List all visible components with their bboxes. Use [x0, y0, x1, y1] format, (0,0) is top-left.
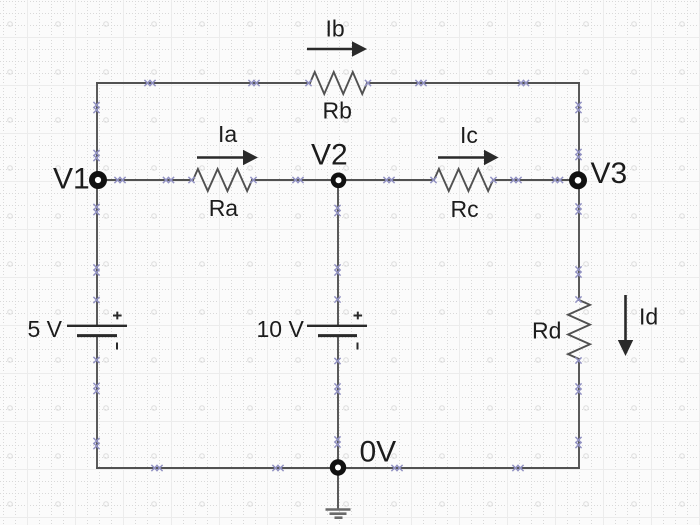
- svg-text:10 V: 10 V: [257, 316, 305, 342]
- wire junction markers middle wire: [114, 177, 563, 183]
- battery V source 5V: [67, 312, 127, 350]
- svg-text:V1: V1: [53, 163, 90, 196]
- svg-text:0V: 0V: [360, 436, 397, 469]
- wire junction markers middle vertical: [334, 205, 340, 448]
- resistor Ra: [193, 169, 252, 191]
- wire ground stem: [337, 468, 339, 509]
- wire middle Ra to V2: [252, 179, 331, 181]
- node V3: [569, 171, 587, 189]
- current arrow Ia: [197, 150, 258, 165]
- wire middle Rc to V3: [493, 179, 570, 181]
- svg-text:5 V: 5 V: [28, 316, 63, 342]
- svg-text:Id: Id: [639, 304, 658, 330]
- resistor Rd: [568, 300, 590, 359]
- node V1: [89, 171, 107, 189]
- svg-text:V2: V2: [311, 139, 348, 172]
- wire middle vertical upper (V2 down to 10V battery): [337, 188, 339, 325]
- battery V source 10V: [307, 312, 367, 350]
- resistor Rc: [434, 169, 493, 191]
- svg-text:Ib: Ib: [326, 16, 345, 42]
- wire junction markers bottom wire: [151, 465, 523, 471]
- wire left vertical middle (V1 down to 5V battery): [96, 188, 98, 325]
- svg-text:Rd: Rd: [532, 318, 561, 344]
- current arrow Ib: [307, 41, 367, 56]
- wire middle V2 to Rc: [346, 179, 434, 181]
- svg-text:Ra: Ra: [209, 195, 239, 221]
- wire top horizontal left (V1 corner to Rb): [97, 82, 310, 84]
- wire junction markers left vertical: [93, 102, 99, 449]
- wire right vertical upper (top corner down to V3): [578, 83, 580, 171]
- ground: [326, 510, 351, 518]
- node V2: [331, 173, 347, 189]
- wire middle V1 to Ra: [106, 179, 193, 181]
- current arrow Ic: [438, 150, 499, 165]
- wire right vertical middle (V3 down to Rd): [578, 189, 580, 300]
- svg-text:Ic: Ic: [460, 122, 478, 148]
- svg-text:Ia: Ia: [218, 121, 237, 147]
- wire left vertical upper (V1 up to top corner): [96, 83, 98, 172]
- wire top horizontal right (Rb to V3 corner): [367, 82, 579, 84]
- wire bottom horizontal: [97, 467, 579, 469]
- current arrow Id: [618, 295, 633, 356]
- resistor Rb: [310, 72, 367, 94]
- wire middle vertical lower (10V battery to ground node): [337, 336, 339, 468]
- svg-text:Rb: Rb: [323, 98, 352, 124]
- svg-text:Rc: Rc: [451, 196, 479, 222]
- node 0V (ground junction): [330, 459, 346, 475]
- wire junction markers right vertical: [575, 102, 581, 448]
- wire junction markers top wire: [144, 80, 529, 86]
- wire right vertical lower (Rd to bottom corner): [578, 359, 580, 468]
- svg-text:V3: V3: [591, 157, 628, 190]
- wire left vertical lower (5V battery to bottom corner): [96, 336, 98, 468]
